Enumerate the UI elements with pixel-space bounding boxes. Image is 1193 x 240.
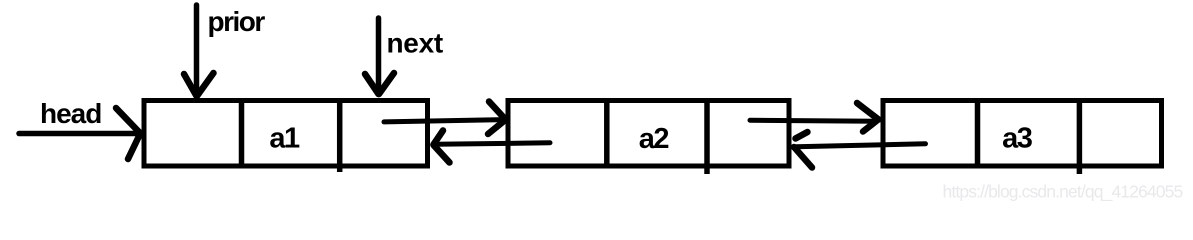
svg-text:head: head <box>40 98 101 129</box>
svg-text:a1: a1 <box>269 123 300 155</box>
svg-text:next: next <box>387 28 443 59</box>
svg-text:a3: a3 <box>1002 123 1033 155</box>
svg-text:prior: prior <box>208 6 266 37</box>
svg-text:a2: a2 <box>639 123 669 155</box>
svg-text:https://blog.csdn.net/qq_41264: https://blog.csdn.net/qq_41264055 <box>943 182 1183 203</box>
